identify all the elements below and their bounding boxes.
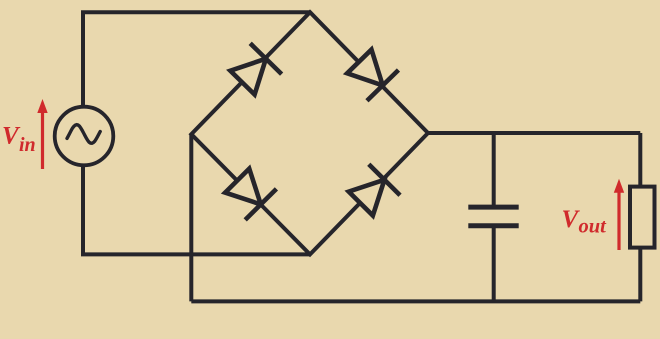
wire: left vertical from bridge left node down	[189, 134, 193, 301]
wire: resistor branch bottom	[638, 247, 642, 301]
wire: bridge diamond sides	[191, 12, 428, 254]
diode D4 (bottom node to right node)	[345, 164, 400, 219]
Vin arrow	[37, 99, 47, 169]
wire: top output rail	[428, 131, 640, 135]
wire: resistor branch top	[638, 133, 642, 187]
wire: capacitor branch bottom	[492, 228, 496, 302]
diode D3 (left node to bottom node)	[222, 165, 277, 220]
AC source sine symbol	[67, 125, 100, 144]
AC source V1 circle	[55, 107, 114, 166]
wire: capacitor branch top	[492, 133, 496, 206]
diode D2 (top node to right node)	[344, 46, 399, 101]
Vout arrow	[614, 179, 624, 250]
diode D1 (left node to top node)	[227, 43, 282, 98]
wire: left input loop (top rail, left wire, bottom rail to bridge)	[83, 12, 310, 254]
svg-text:out: out	[579, 215, 608, 237]
svg-text:in: in	[19, 134, 36, 156]
resistor R1 (load)	[630, 187, 655, 248]
capacitor C1 plates	[468, 207, 518, 226]
wire: bottom rail	[191, 299, 640, 303]
